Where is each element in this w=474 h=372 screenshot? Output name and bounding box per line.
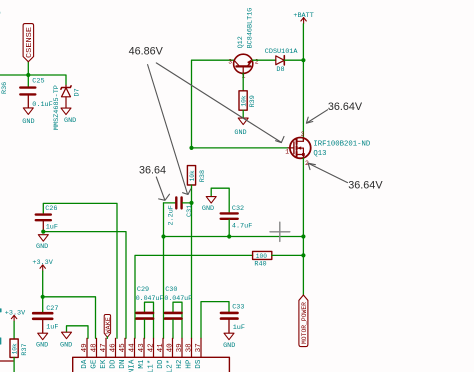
node +BATT junction — [301, 58, 305, 62]
capacitor C32 4.7uF — [221, 205, 253, 237]
wire pin49 gnd net — [67, 326, 89, 339]
svg-text:MMSZ4685-TP: MMSZ4685-TP — [53, 85, 61, 130]
svg-text:3: 3 — [228, 59, 232, 66]
svg-text:C32: C32 — [232, 205, 244, 213]
wire +3.3V to C27 — [42, 271, 44, 312]
svg-text:L1*: L1* — [148, 360, 156, 372]
annotation line to MOSFET gate — [156, 63, 284, 143]
svg-text:40: 40 — [167, 343, 175, 353]
svg-text:Q13: Q13 — [313, 150, 326, 158]
svg-text:DS: DS — [195, 359, 203, 369]
wire CSENSE label stem — [27, 62, 29, 76]
wire R37 down — [13, 357, 15, 372]
capacitor C31 2.2uF — [164, 197, 194, 225]
transistor Q13 IRF100B201-ND mosfet — [285, 131, 371, 167]
wire MOSFET source down — [302, 158, 304, 295]
svg-text:C27: C27 — [46, 305, 58, 313]
annotation arrow to source — [308, 163, 347, 182]
svg-text:44: 44 — [129, 343, 137, 353]
wire C26 gnd net to pin45 — [43, 232, 126, 339]
ground below C26 — [36, 235, 48, 251]
svg-text:C31: C31 — [186, 205, 194, 217]
fragment bottom-left red line — [0, 360, 13, 362]
resistor R37 10k — [10, 339, 29, 357]
svg-text:GND: GND — [36, 243, 48, 251]
svg-text:EK: EK — [100, 359, 108, 369]
transistor Q12 BC846BLT1G — [228, 8, 259, 80]
capacitor C25 — [20, 75, 52, 109]
svg-text:42: 42 — [148, 343, 156, 353]
svg-text:R36: R36 — [1, 82, 9, 94]
svg-text:D7: D7 — [73, 88, 81, 96]
pin 39 — [176, 338, 184, 368]
svg-text:WAKE: WAKE — [105, 317, 112, 334]
pin 42 — [148, 338, 156, 372]
wire +3.3V net to pin48 — [43, 297, 96, 339]
svg-text:36.64V: 36.64V — [328, 101, 363, 113]
svg-text:GND: GND — [22, 118, 34, 126]
power +3.3V lower left — [5, 310, 26, 322]
fragment left edge mark near +3.3V — [0, 309, 2, 312]
svg-text:DD: DD — [157, 359, 165, 369]
svg-text:D8: D8 — [276, 66, 284, 74]
node gate junction — [189, 146, 193, 150]
node C32 rail junction — [227, 234, 231, 238]
wire +3.3V to R37 — [13, 321, 15, 339]
svg-text:49: 49 — [81, 343, 89, 353]
capacitor C27 1uF — [33, 305, 58, 333]
capacitor C26 1uF — [36, 203, 117, 338]
IC pins 49..37 — [81, 338, 203, 372]
wire CSENSE horizontal net y=75 — [0, 75, 66, 85]
cursor crosshair — [270, 222, 290, 241]
pin 38 — [186, 338, 194, 368]
wire MOSFET gate net — [192, 147, 289, 149]
svg-text:CDSU101A: CDSU101A — [265, 48, 299, 56]
label MOTOR_POWER — [299, 295, 309, 347]
pin 37 — [195, 338, 203, 368]
pin 48 — [91, 338, 99, 368]
svg-text:C33: C33 — [232, 304, 244, 312]
svg-text:DD: DD — [110, 359, 118, 369]
pin 47 — [100, 338, 108, 368]
ground below C27 — [36, 333, 48, 349]
pin 46 — [110, 338, 118, 368]
svg-text:48: 48 — [91, 343, 99, 353]
svg-text:DA: DA — [81, 359, 89, 369]
resistor R38 10k — [187, 166, 206, 185]
svg-text:36.64: 36.64 — [139, 165, 166, 177]
svg-text:C26: C26 — [45, 205, 57, 213]
svg-text:37: 37 — [195, 343, 203, 352]
pin 41 — [157, 338, 165, 368]
annotation arrow to C31 — [156, 177, 169, 200]
ground below R39 — [234, 118, 248, 137]
pin 40 — [167, 338, 175, 372]
node R38/C31 junction — [189, 201, 193, 205]
svg-text:41: 41 — [157, 343, 165, 353]
svg-text:R40: R40 — [254, 261, 266, 269]
svg-text:3: 3 — [301, 131, 305, 138]
svg-text:1: 1 — [285, 149, 289, 156]
svg-text:Q12: Q12 — [237, 36, 245, 48]
svg-text:10k: 10k — [240, 95, 247, 106]
resistor R40 100 — [253, 251, 304, 268]
svg-text:0.047uF: 0.047uF — [164, 295, 192, 302]
node rail left junction — [161, 234, 165, 238]
diode D7 zener MMSZ4685-TP — [53, 85, 81, 130]
node C27 junction — [41, 295, 45, 299]
capacitor C33 1uF — [201, 302, 245, 339]
svg-text:NIA: NIA — [129, 359, 137, 372]
wire Q12 collector net from corner — [192, 60, 234, 148]
svg-text:C30: C30 — [165, 286, 177, 294]
ground below D7 — [61, 108, 76, 125]
svg-text:10k: 10k — [11, 343, 18, 354]
label WAKE — [104, 315, 112, 339]
svg-text:36.64V: 36.64V — [348, 179, 383, 191]
svg-text:47: 47 — [100, 343, 108, 352]
ground near C32 — [202, 188, 229, 213]
capacitor C30 0.047uF — [164, 286, 192, 339]
svg-text:D: D — [0, 10, 1, 18]
node C26 bottom junction — [41, 230, 45, 234]
fragment left edge teal mark — [0, 338, 2, 344]
svg-text:4.7uF: 4.7uF — [232, 223, 252, 231]
svg-text:43: 43 — [138, 343, 146, 353]
svg-text:L2*: L2* — [167, 360, 175, 372]
power +3.3V upper — [32, 259, 53, 271]
svg-text:100: 100 — [256, 253, 267, 260]
wire rail to pin41 — [163, 237, 165, 339]
svg-text:38: 38 — [186, 343, 194, 353]
svg-text:0.047uF: 0.047uF — [136, 295, 164, 302]
svg-text:M1: M1 — [138, 359, 146, 369]
svg-text:HP: HP — [186, 359, 194, 369]
wire R39 to ground — [242, 110, 244, 118]
svg-text:R37: R37 — [21, 343, 29, 355]
node rail right junction — [301, 234, 305, 238]
pin 49 — [81, 338, 89, 368]
svg-text:DN: DN — [119, 360, 127, 369]
wire ground rail — [164, 236, 304, 238]
wire +BATT rail down to MOSFET — [302, 24, 304, 141]
pin 44 — [129, 338, 137, 372]
svg-text:C25: C25 — [32, 78, 44, 86]
svg-text:R38: R38 — [199, 170, 207, 182]
wire C31 left down to rail — [163, 203, 165, 237]
resistor R39 10k — [239, 91, 257, 110]
wire pin38 net down — [191, 203, 193, 338]
svg-text:39: 39 — [176, 343, 184, 353]
svg-text:R39: R39 — [249, 95, 257, 107]
svg-text:H2: H2 — [176, 359, 184, 369]
svg-text:10k: 10k — [189, 170, 196, 181]
ground below C33 — [223, 333, 235, 350]
diode D8 CDSU101A — [265, 48, 304, 74]
svg-text:1uF: 1uF — [46, 224, 58, 232]
svg-text:GND: GND — [60, 341, 72, 349]
svg-text:1uF: 1uF — [233, 324, 245, 332]
svg-text:46: 46 — [110, 343, 118, 353]
svg-text:0.1uF: 0.1uF — [32, 101, 52, 109]
pin 43 — [138, 338, 146, 368]
svg-text:GND: GND — [202, 205, 214, 213]
capacitor C29 0.047uF — [136, 286, 164, 339]
svg-text:GND: GND — [234, 129, 246, 137]
ground below C25 — [22, 108, 34, 126]
svg-text:1uF: 1uF — [46, 324, 58, 332]
svg-text:GND: GND — [223, 342, 235, 350]
wire Q12 base to R39 — [242, 73, 244, 90]
svg-text:46.86V: 46.86V — [129, 46, 164, 58]
wire R38 to C31 junction — [191, 185, 193, 203]
node CSENSE junction — [26, 73, 30, 77]
svg-text:GE: GE — [91, 359, 99, 369]
IC U? box edge — [73, 357, 230, 372]
node R40 junction — [301, 253, 305, 257]
svg-text:IRF100B201-ND: IRF100B201-ND — [313, 141, 371, 149]
power +BATT — [293, 12, 313, 24]
svg-text:BC846BLT1G: BC846BLT1G — [247, 8, 255, 49]
svg-text:MOTOR_POWER: MOTOR_POWER — [301, 302, 309, 344]
svg-text:45: 45 — [119, 343, 127, 353]
svg-text:2.2uF: 2.2uF — [168, 205, 176, 225]
wire Q12 emitter to D8 — [253, 59, 276, 61]
annotation arrow to drain — [306, 110, 327, 124]
ground at pin49 — [60, 332, 72, 349]
svg-text:CSENSE: CSENSE — [26, 27, 34, 58]
label CSENSE — [23, 24, 34, 62]
svg-text:GND: GND — [36, 341, 48, 349]
wire R40 net — [135, 255, 253, 338]
pin 45 — [119, 338, 127, 368]
svg-text:GND: GND — [64, 117, 76, 125]
svg-text:C29: C29 — [137, 286, 149, 294]
annotation line to R38/C31 junction — [148, 65, 191, 195]
